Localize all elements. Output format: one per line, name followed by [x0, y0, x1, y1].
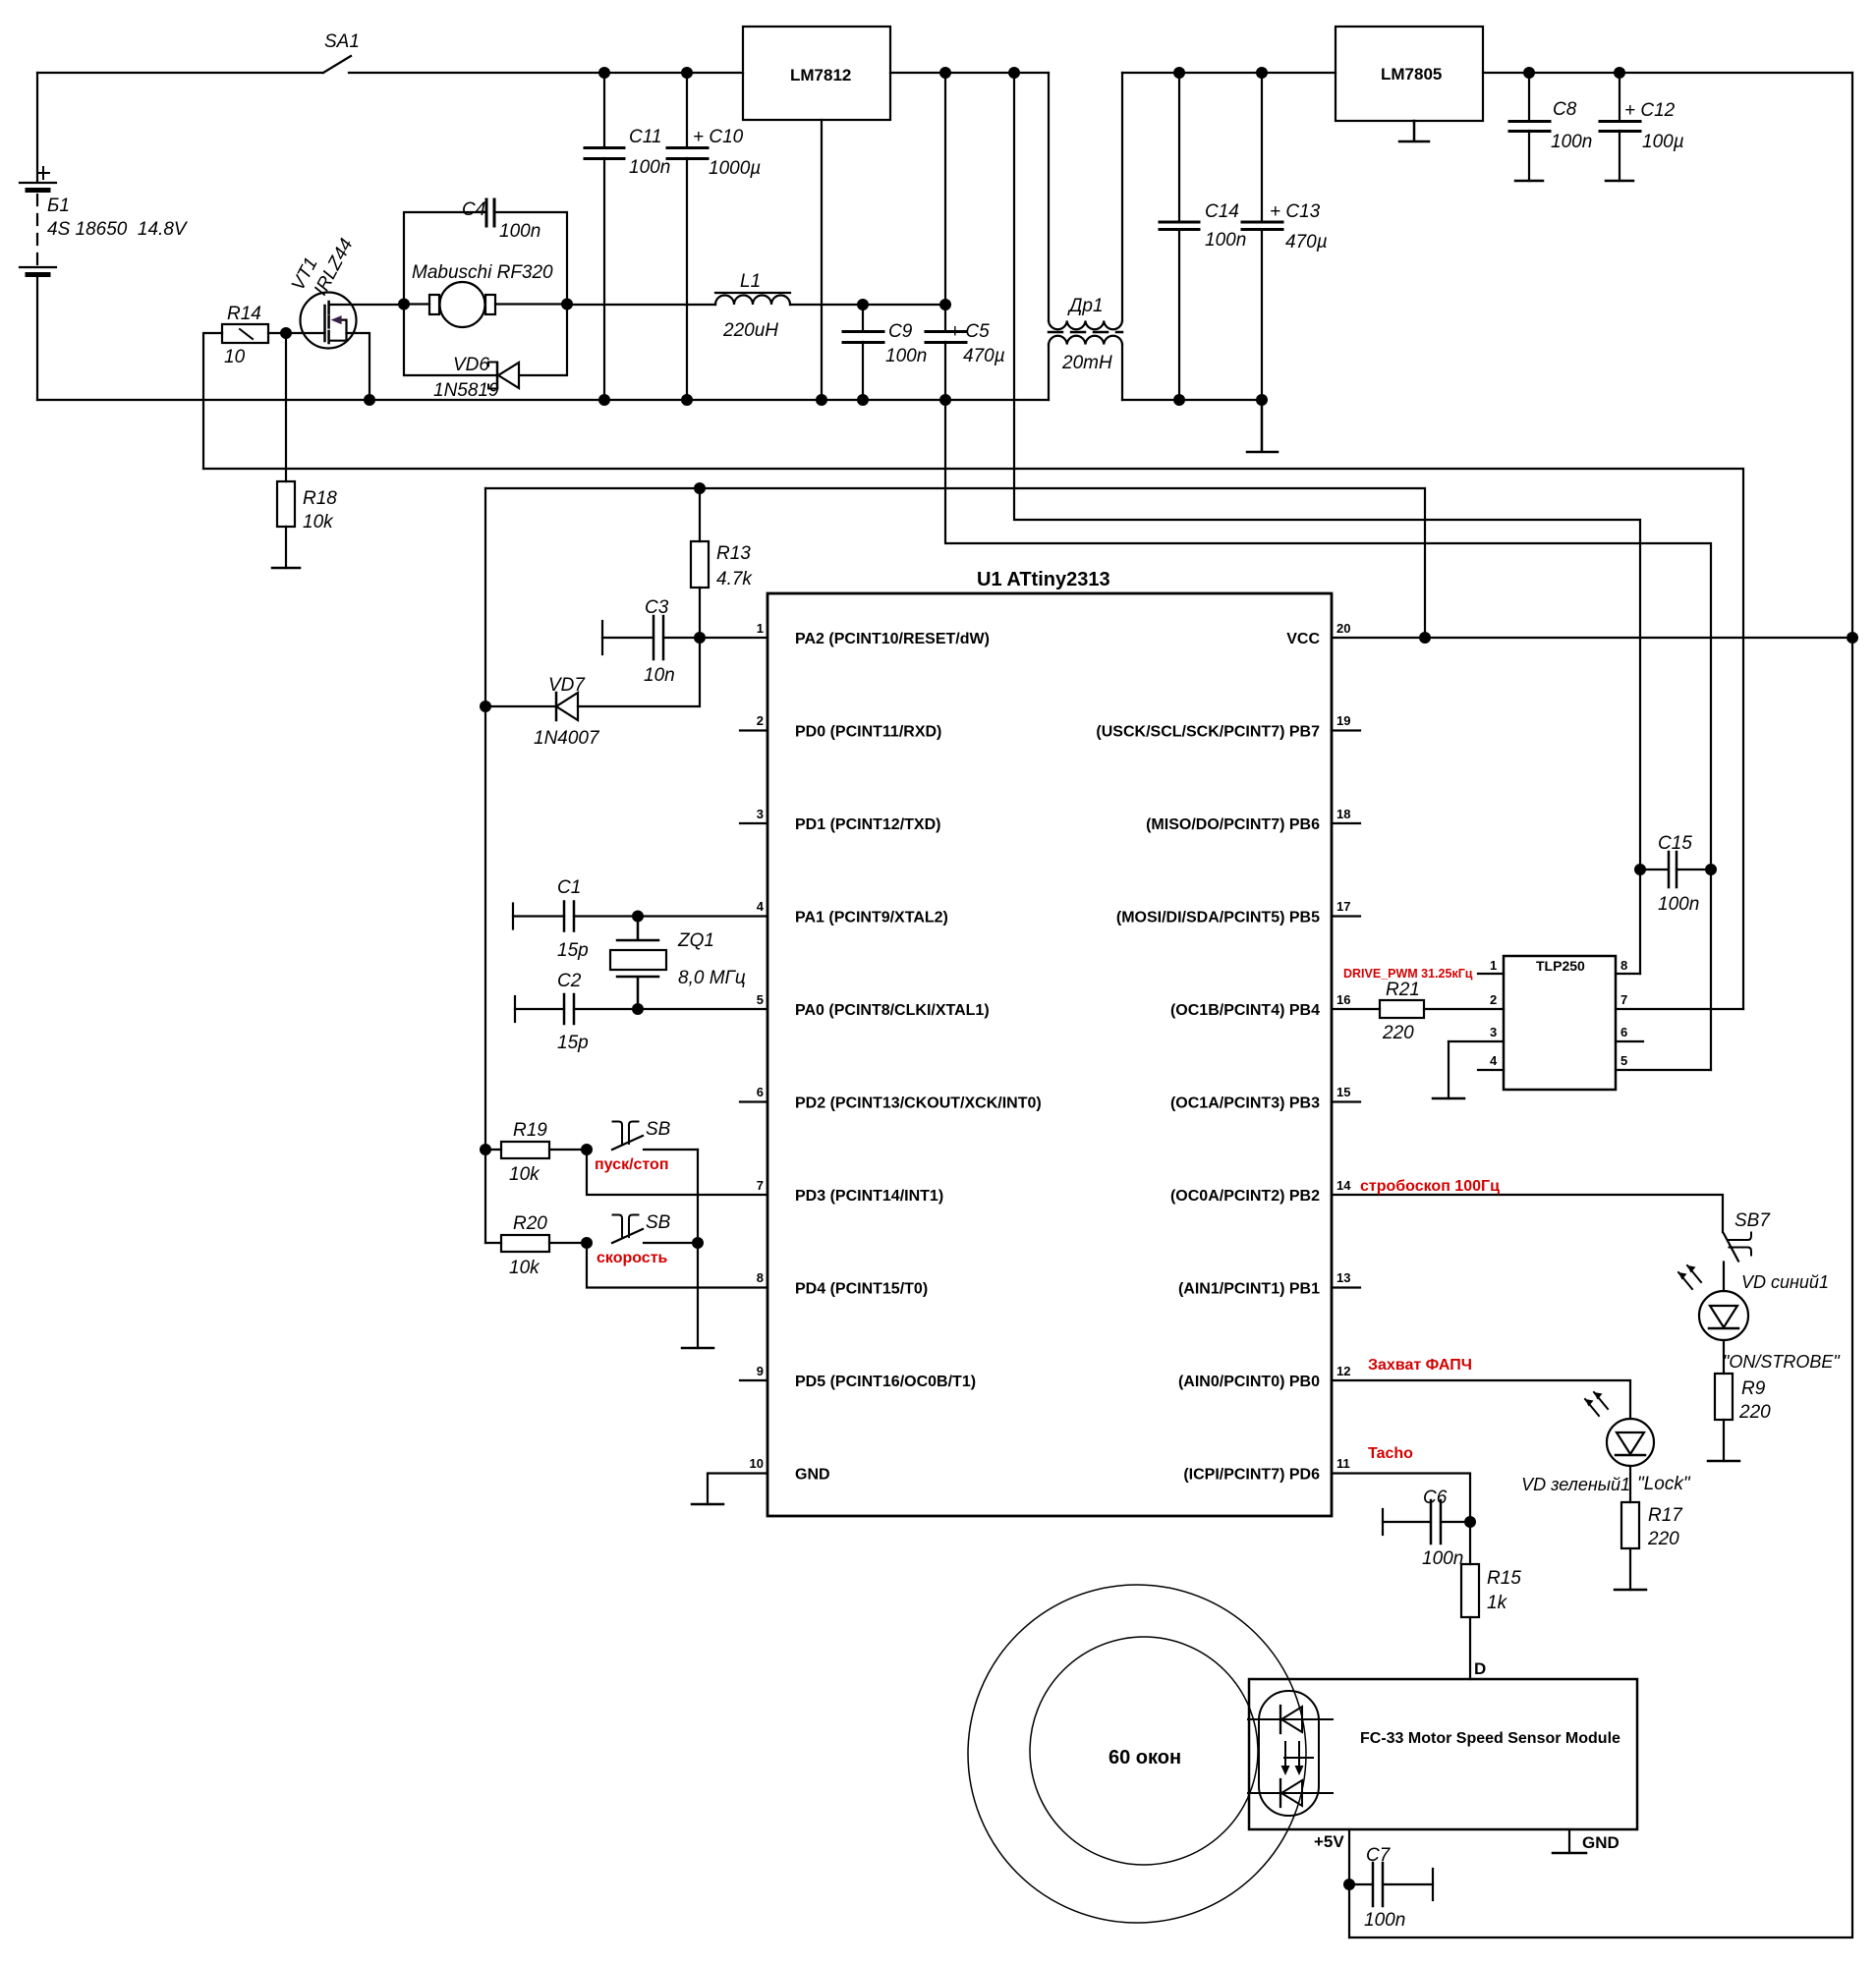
svg-text:C4: C4	[462, 199, 485, 220]
svg-text:R21: R21	[1386, 980, 1420, 1000]
pushbutton SB7	[1724, 1233, 1751, 1292]
svg-text:17: 17	[1336, 899, 1350, 914]
svg-text:11: 11	[1336, 1456, 1350, 1471]
svg-text:8,0 МГц: 8,0 МГц	[678, 968, 746, 988]
resistor R19	[485, 1142, 587, 1158]
svg-text:PD2 (PCINT13/CKOUT/XCK/INT0): PD2 (PCINT13/CKOUT/XCK/INT0)	[795, 1095, 1042, 1112]
svg-text:PD0 (PCINT11/RXD): PD0 (PCINT11/RXD)	[795, 724, 941, 741]
wire pin10 GND	[708, 1474, 767, 1505]
wire pin11 PD6 tacho	[1332, 1474, 1470, 1523]
svg-text:PD3 (PCINT14/INT1): PD3 (PCINT14/INT1)	[795, 1188, 943, 1205]
wire FC33 +5V	[1348, 1829, 1350, 1937]
pin3 stub	[740, 822, 767, 824]
resistor R13	[691, 488, 709, 638]
pin19 stub	[1332, 729, 1360, 731]
svg-text:C1: C1	[557, 877, 581, 898]
wire buttons common to ground	[697, 1150, 699, 1348]
svg-text:1N5819: 1N5819	[433, 380, 499, 401]
capacitor C3	[602, 616, 700, 659]
svg-text:VD6: VD6	[453, 355, 489, 375]
svg-text:C2: C2	[557, 971, 582, 991]
svg-text:100n: 100n	[1551, 132, 1592, 152]
svg-text:60 окон: 60 окон	[1109, 1747, 1181, 1768]
svg-text:1: 1	[757, 621, 764, 636]
TLP pin4 stub	[1478, 1069, 1504, 1071]
svg-text:100n: 100n	[629, 157, 670, 178]
svg-text:3: 3	[1490, 1025, 1497, 1039]
crystal ZQ1	[610, 917, 666, 1010]
svg-text:R20: R20	[513, 1213, 547, 1234]
capacitor C14	[1160, 73, 1199, 400]
svg-text:LM7812: LM7812	[790, 66, 851, 84]
MCU pin numbers left	[750, 621, 765, 1471]
svg-text:100n: 100n	[499, 221, 540, 242]
svg-text:4.7k: 4.7k	[716, 569, 753, 589]
svg-text:+ C12: + C12	[1624, 100, 1676, 121]
resistor R15	[1461, 1522, 1479, 1679]
svg-text:SB7: SB7	[1734, 1210, 1771, 1231]
svg-text:R19: R19	[513, 1120, 547, 1141]
wire +5V right vertical	[1349, 73, 1852, 1937]
pin6 stub	[740, 1100, 767, 1102]
TLP pin6 stub	[1616, 1040, 1643, 1042]
svg-text:R18: R18	[303, 488, 337, 509]
regulator LM7805	[1336, 27, 1483, 121]
svg-text:R17: R17	[1648, 1505, 1683, 1526]
regulator LM7812	[743, 27, 890, 120]
svg-text:220: 220	[1738, 1402, 1771, 1423]
svg-text:SB: SB	[646, 1212, 671, 1233]
diode VD6 1N5819 schottky	[488, 363, 519, 389]
wire gate drive line A	[203, 469, 1743, 1009]
LED VD green	[1585, 1392, 1654, 1502]
svg-text:10k: 10k	[509, 1258, 540, 1278]
svg-text:"ON/STROBE": "ON/STROBE"	[1723, 1352, 1841, 1372]
disc 60 windows circles	[968, 1585, 1306, 1923]
svg-text:220: 220	[1382, 1023, 1414, 1043]
ground FC33 GND pin	[1553, 1829, 1586, 1853]
capacitor C1	[513, 902, 638, 931]
svg-text:100n: 100n	[1422, 1548, 1463, 1569]
svg-text:1000µ: 1000µ	[709, 158, 761, 179]
svg-text:R13: R13	[716, 543, 751, 564]
diode VD7 1N4007	[485, 638, 700, 720]
svg-text:+ C10: + C10	[693, 127, 744, 147]
optocoupler U2 TLP250 box	[1504, 956, 1616, 1090]
capacitor C15	[1640, 852, 1711, 887]
sensor module FC-33 box	[1249, 1679, 1637, 1829]
svg-text:(MOSI/DI/SDA/PCINT5) PB5: (MOSI/DI/SDA/PCINT5) PB5	[1116, 910, 1320, 926]
svg-text:10: 10	[750, 1456, 764, 1471]
wire LM7805 out	[1483, 72, 1852, 74]
wire pin12 PB0 lock	[1332, 1380, 1630, 1419]
capacitor C7	[1349, 1863, 1433, 1906]
svg-text:8: 8	[757, 1270, 764, 1285]
pin13 stub	[1332, 1286, 1360, 1288]
svg-text:100n: 100n	[885, 346, 927, 366]
svg-text:(ICPI/PCINT7) PD6: (ICPI/PCINT7) PD6	[1183, 1467, 1320, 1484]
resistor R21	[1332, 1000, 1504, 1018]
svg-text:R14: R14	[227, 304, 261, 324]
battery B1	[20, 73, 56, 400]
svg-text:пуск/стоп: пуск/стоп	[595, 1156, 668, 1173]
svg-text:7: 7	[757, 1178, 764, 1193]
capacitor C8	[1509, 73, 1550, 181]
choke Dr1 common-mode	[1049, 73, 1122, 400]
svg-text:VD7: VD7	[548, 675, 586, 696]
svg-text:470µ: 470µ	[1285, 232, 1328, 253]
svg-text:10: 10	[224, 347, 246, 367]
photo interrupter symbol	[1248, 1691, 1333, 1816]
svg-text:15p: 15p	[557, 940, 589, 961]
pin17 stub	[1332, 915, 1360, 917]
svg-text:скорость: скорость	[597, 1250, 668, 1266]
ground R17	[1615, 1589, 1646, 1592]
wire gnd down to TLP pin5 route	[945, 400, 1711, 1070]
svg-text:4: 4	[1490, 1053, 1498, 1068]
svg-text:C6: C6	[1423, 1488, 1448, 1508]
svg-text:PA0 (PCINT8/CLKI/XTAL1): PA0 (PCINT8/CLKI/XTAL1)	[795, 1002, 990, 1019]
wire pin14 PB2 strobe	[1332, 1195, 1723, 1232]
svg-text:20: 20	[1336, 621, 1350, 636]
svg-text:8: 8	[1620, 958, 1627, 973]
TLP pin3 gnd	[1433, 1041, 1504, 1098]
svg-text:стробоскоп 100Гц: стробоскоп 100Гц	[1360, 1178, 1500, 1195]
svg-text:PD1 (PCINT12/TXD): PD1 (PCINT12/TXD)	[795, 816, 940, 833]
svg-text:(MISO/DO/PCINT7) PB6: (MISO/DO/PCINT7) PB6	[1146, 816, 1320, 833]
svg-text:Др1: Др1	[1067, 296, 1104, 316]
svg-text:GND: GND	[1582, 1833, 1620, 1852]
svg-text:+ C13: + C13	[1270, 201, 1321, 222]
svg-text:220uH: 220uH	[722, 320, 778, 341]
svg-text:2: 2	[757, 713, 764, 728]
svg-text:Захват ФАПЧ: Захват ФАПЧ	[1368, 1357, 1472, 1374]
transistor VT1 MOSFET IRLZ44	[301, 293, 405, 401]
TLP pin1 stub	[1478, 973, 1504, 975]
MCU pin names right	[1096, 631, 1320, 1484]
svg-text:16: 16	[1336, 992, 1350, 1007]
TLP pin numbers	[1490, 958, 1627, 1068]
resistor R17	[1621, 1502, 1639, 1590]
TLP pin7 stub	[1616, 1008, 1743, 1010]
svg-text:9: 9	[757, 1364, 764, 1378]
wire pin8 PD4	[587, 1243, 767, 1288]
capacitor C12	[1600, 73, 1640, 181]
TLP pin8 stub	[1616, 973, 1640, 975]
ground MCU	[692, 1503, 723, 1506]
svg-text:1k: 1k	[1487, 1593, 1508, 1613]
capacitor C10	[667, 73, 708, 400]
svg-text:4S 18650 14.8V: 4S 18650 14.8V	[47, 219, 189, 240]
pushbutton SB start/stop	[612, 1122, 698, 1151]
wire pin1 reset	[700, 637, 767, 639]
wire pin5 XTAL1	[638, 1008, 767, 1010]
wire L1 to C5 node	[863, 304, 945, 306]
svg-text:100n: 100n	[1205, 230, 1246, 251]
svg-text:470µ: 470µ	[963, 346, 1005, 366]
svg-text:C14: C14	[1205, 201, 1239, 222]
svg-text:PA1 (PCINT9/XTAL2): PA1 (PCINT9/XTAL2)	[795, 910, 948, 926]
svg-text:C15: C15	[1658, 833, 1692, 854]
svg-text:C3: C3	[645, 597, 669, 618]
wire VCC line B	[485, 488, 1425, 638]
motor M Mabuschi RF320	[404, 282, 567, 327]
svg-text:10k: 10k	[303, 512, 334, 533]
svg-text:"Lock": "Lock"	[1637, 1474, 1691, 1494]
TLP pin5 stub	[1616, 1069, 1711, 1071]
wire to LM7805	[1122, 72, 1336, 74]
svg-text:R9: R9	[1741, 1378, 1766, 1399]
pushbutton SB speed	[612, 1215, 698, 1244]
LED VD blue	[1678, 1265, 1748, 1374]
wire pin7 PD3	[587, 1150, 767, 1195]
svg-text:13: 13	[1336, 1270, 1350, 1285]
pin18 stub	[1332, 822, 1360, 824]
svg-text:15p: 15p	[557, 1033, 589, 1053]
svg-text:15: 15	[1336, 1085, 1350, 1099]
svg-text:C11: C11	[629, 127, 661, 147]
resistor R14	[203, 324, 325, 469]
svg-text:(OC0A/PCINT2) PB2: (OC0A/PCINT2) PB2	[1170, 1188, 1320, 1205]
svg-text:2: 2	[1490, 992, 1497, 1007]
svg-text:C7: C7	[1366, 1845, 1392, 1866]
capacitor C9	[843, 305, 883, 400]
capacitor C11	[585, 73, 624, 400]
wire top bus left	[37, 72, 323, 74]
svg-text:3: 3	[757, 807, 764, 821]
wire LM7812 out	[890, 72, 1049, 74]
svg-text:4: 4	[757, 899, 765, 914]
resistor R18	[272, 333, 300, 568]
svg-text:C8: C8	[1553, 99, 1577, 120]
svg-text:VD синий1: VD синий1	[1741, 1272, 1829, 1292]
svg-text:(AIN1/PCINT1) PB1: (AIN1/PCINT1) PB1	[1178, 1281, 1320, 1298]
svg-text:GND: GND	[795, 1467, 830, 1484]
ground C13	[1247, 400, 1278, 452]
MCU pin names left	[795, 631, 1042, 1484]
motor loop frame	[404, 212, 567, 375]
svg-text:(USCK/SCL/SCK/PCINT7) PB7: (USCK/SCL/SCK/PCINT7) PB7	[1096, 724, 1320, 741]
ground buttons	[682, 1347, 713, 1350]
wire +12V down to TLP pin8 route	[1014, 73, 1640, 974]
svg-text:7: 7	[1620, 992, 1627, 1007]
svg-text:(OC1A/PCINT3) PB3: (OC1A/PCINT3) PB3	[1170, 1095, 1320, 1112]
svg-text:100n: 100n	[1658, 894, 1699, 915]
svg-text:Б1: Б1	[47, 196, 70, 216]
pin15 stub	[1332, 1100, 1360, 1102]
svg-text:TLP250: TLP250	[1536, 958, 1585, 974]
svg-text:SB: SB	[646, 1119, 671, 1140]
svg-text:+ C5: + C5	[949, 321, 990, 342]
inductor L1	[567, 293, 863, 305]
svg-text:Mabuschi RF320: Mabuschi RF320	[412, 262, 553, 283]
svg-text:D: D	[1474, 1659, 1486, 1678]
capacitor C13	[1242, 73, 1282, 400]
capacitor C5	[926, 73, 966, 400]
svg-text:5: 5	[757, 992, 764, 1007]
switch SA1	[323, 56, 743, 73]
wire bottom ground bus	[37, 399, 1262, 401]
svg-text:10n: 10n	[644, 665, 675, 686]
svg-text:PD4 (PCINT15/T0): PD4 (PCINT15/T0)	[795, 1281, 928, 1298]
svg-text:6: 6	[757, 1085, 764, 1099]
svg-text:6: 6	[1620, 1025, 1627, 1039]
svg-text:100µ: 100µ	[1642, 132, 1684, 152]
svg-text:SA1: SA1	[324, 31, 360, 52]
svg-text:220: 220	[1647, 1529, 1679, 1549]
svg-text:1N4007: 1N4007	[534, 728, 600, 749]
svg-text:DRIVE_PWM 31.25кГц: DRIVE_PWM 31.25кГц	[1343, 967, 1473, 981]
svg-text:FC-33 Motor Speed Sensor Modul: FC-33 Motor Speed Sensor Module	[1360, 1730, 1620, 1747]
capacitor C4	[486, 199, 494, 226]
ground LM7805	[1399, 121, 1429, 141]
svg-text:L1: L1	[740, 271, 761, 292]
svg-text:PA2 (PCINT10/RESET/dW): PA2 (PCINT10/RESET/dW)	[795, 631, 990, 647]
svg-text:ZQ1: ZQ1	[677, 930, 714, 951]
svg-text:VCC: VCC	[1286, 631, 1320, 647]
MCU pin numbers right	[1336, 621, 1351, 1471]
svg-text:(AIN0/PCINT0) PB0: (AIN0/PCINT0) PB0	[1178, 1374, 1320, 1390]
ground R9	[1708, 1460, 1739, 1463]
svg-text:100n: 100n	[1364, 1910, 1405, 1931]
svg-text:C9: C9	[888, 321, 913, 342]
capacitor C6	[1383, 1500, 1470, 1544]
svg-text:5: 5	[1620, 1053, 1627, 1068]
wire LM7812 gnd	[821, 120, 823, 400]
svg-text:R15: R15	[1487, 1568, 1521, 1589]
pin2 stub	[740, 729, 767, 731]
svg-text:10k: 10k	[509, 1164, 540, 1185]
svg-text:+5V: +5V	[1314, 1832, 1344, 1851]
wire left button rail	[484, 488, 486, 1243]
resistor R20	[485, 1235, 587, 1252]
svg-text:14: 14	[1336, 1178, 1351, 1193]
wire VCC MCU line	[1332, 637, 1852, 639]
svg-text:Tacho: Tacho	[1368, 1445, 1413, 1462]
wire pin4 XTAL2	[638, 915, 767, 917]
MCU U1 ATtiny2313 box	[767, 593, 1332, 1516]
svg-text:LM7805: LM7805	[1381, 65, 1442, 84]
svg-text:12: 12	[1336, 1364, 1350, 1378]
svg-text:U1 ATtiny2313: U1 ATtiny2313	[977, 569, 1110, 590]
svg-text:1: 1	[1490, 958, 1497, 973]
svg-text:20mH: 20mH	[1061, 353, 1112, 373]
svg-text:19: 19	[1336, 713, 1350, 728]
pin9 stub	[740, 1379, 767, 1381]
resistor R9	[1715, 1374, 1733, 1461]
svg-text:VD зеленый1: VD зеленый1	[1521, 1475, 1630, 1494]
svg-text:(OC1B/PCINT4) PB4: (OC1B/PCINT4) PB4	[1170, 1002, 1320, 1019]
svg-text:PD5 (PCINT16/OC0B/T1): PD5 (PCINT16/OC0B/T1)	[795, 1374, 976, 1390]
svg-text:18: 18	[1336, 807, 1350, 821]
capacitor C2	[515, 994, 638, 1024]
